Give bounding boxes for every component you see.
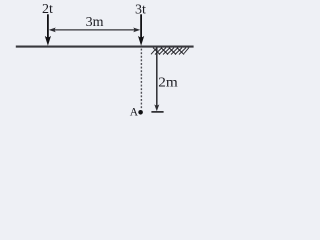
svg-text:3m: 3m xyxy=(86,15,104,30)
label 2t xyxy=(42,2,53,17)
svg-text:2m: 2m xyxy=(158,76,178,91)
label 3t xyxy=(135,2,146,17)
beam line (ground surface) xyxy=(16,46,194,48)
svg-text:3t: 3t xyxy=(135,2,146,17)
label A xyxy=(130,107,139,119)
tick at level of point A xyxy=(151,111,163,113)
svg-text:A: A xyxy=(130,107,139,119)
point A dot xyxy=(138,110,143,115)
load arrow 3t xyxy=(138,14,144,45)
dimension line 2m xyxy=(154,48,159,112)
load arrow 2t xyxy=(45,14,51,45)
hatched ground xyxy=(151,48,189,55)
svg-text:2t: 2t xyxy=(42,2,53,17)
dimension line 3m xyxy=(49,28,141,33)
dashed projection line xyxy=(140,49,142,110)
label 3m xyxy=(86,15,104,30)
label 2m xyxy=(158,76,178,91)
